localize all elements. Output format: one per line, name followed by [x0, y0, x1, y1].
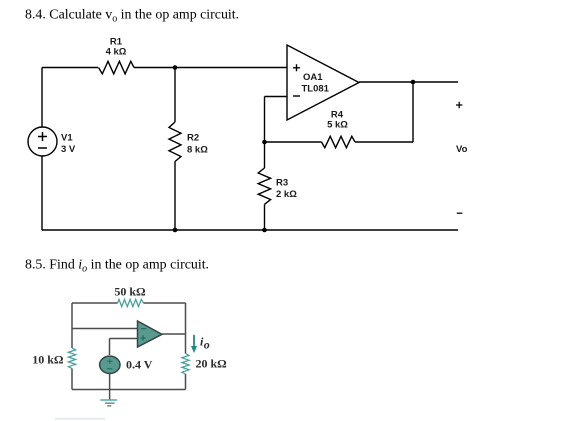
- svg-text:5 kΩ: 5 kΩ: [327, 120, 348, 131]
- svg-text:2 kΩ: 2 kΩ: [276, 189, 297, 200]
- wire source stem: [109, 374, 111, 400]
- wire R3 branch lower: [264, 204, 266, 230]
- svg-text:10 kΩ: 10 kΩ: [32, 353, 64, 367]
- resistor R2: [169, 122, 208, 162]
- label plus output: [456, 102, 462, 108]
- wire top rail left segment: [42, 67, 98, 69]
- wire top rail circuit2: [72, 302, 186, 304]
- current arrow io: [191, 335, 210, 354]
- svg-text:8.4. Calculate vo in the op am: 8.4. Calculate vo in the op amp circuit.: [25, 8, 239, 25]
- node junction top: [173, 65, 178, 70]
- voltage source V1: [28, 127, 76, 156]
- resistor 20k: [182, 354, 227, 375]
- svg-text:8 kΩ: 8 kΩ: [187, 145, 208, 156]
- svg-text:4 kΩ: 4 kΩ: [106, 47, 127, 58]
- resistor 10k: [32, 348, 75, 369]
- svg-text:50 kΩ: 50 kΩ: [114, 285, 146, 299]
- resistor R1: [99, 37, 135, 74]
- wire left rail circuit2 lower: [71, 369, 73, 390]
- wire R2 branch lower: [174, 162, 176, 231]
- wire output circuit2: [162, 333, 186, 335]
- wire left rail upper: [41, 68, 43, 128]
- wire output: [359, 81, 458, 83]
- label minus output: [457, 212, 463, 214]
- wire R3 branch upper: [264, 142, 266, 168]
- wire right rail circuit2 lower: [185, 374, 187, 390]
- wire left rail circuit2 upper: [71, 303, 73, 348]
- wire bottom rail circuit2: [72, 389, 186, 391]
- wire bottom rail: [42, 229, 458, 231]
- svg-text:R3: R3: [276, 178, 288, 189]
- node bottom rail at R2: [173, 228, 178, 233]
- wire top rail right segment: [134, 67, 287, 69]
- node bottom rail at R3: [262, 228, 267, 233]
- title 8.5: [25, 258, 209, 275]
- resistor R3: [258, 168, 297, 204]
- wire right rail circuit2 upper: [185, 303, 187, 354]
- svg-text:8.5. Find io in the op amp cir: 8.5. Find io in the op amp circuit.: [25, 258, 209, 275]
- op-amp U1 OA1 TL081: [287, 45, 359, 120]
- op-amp circuit2: [138, 321, 163, 347]
- wire feedback right segment: [355, 82, 413, 142]
- faint cut text bottom: [55, 418, 105, 420]
- svg-text:R2: R2: [187, 133, 199, 144]
- svg-text:TL081: TL081: [302, 84, 330, 95]
- voltage source 0.4V: [100, 356, 153, 373]
- label Vo: [456, 144, 468, 155]
- ground: [100, 400, 117, 406]
- wire feedback left segment: [265, 141, 322, 143]
- svg-text:OA1: OA1: [303, 72, 323, 83]
- wire R2 branch upper: [174, 68, 176, 123]
- svg-text:0.4 V: 0.4 V: [126, 358, 153, 372]
- resistor R4: [322, 110, 356, 148]
- node feedback junction: [262, 140, 267, 145]
- svg-text:o: o: [204, 337, 210, 351]
- wire inverting input circuit2: [72, 328, 138, 330]
- resistor 50k: [114, 285, 146, 307]
- svg-text:V1: V1: [61, 133, 73, 144]
- node output junction: [411, 80, 416, 85]
- title 8.4: [25, 8, 239, 25]
- wire left rail lower: [41, 156, 43, 230]
- svg-text:Vo: Vo: [456, 144, 468, 155]
- wire inverting input: [265, 97, 288, 143]
- svg-text:20 kΩ: 20 kΩ: [196, 357, 228, 371]
- wire noninverting input circuit2: [110, 339, 138, 356]
- svg-text:3 V: 3 V: [61, 144, 76, 155]
